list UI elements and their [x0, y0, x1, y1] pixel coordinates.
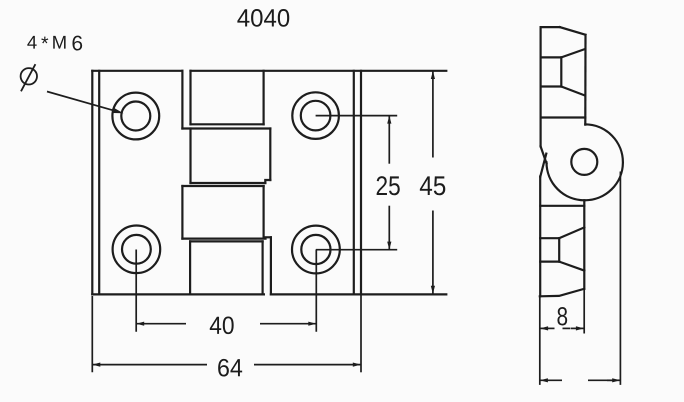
side view: bottom leaf left edge slant [540, 154, 546, 177]
leader line to top-left hole [47, 92, 124, 114]
front view: bottom edge left segment [92, 293, 264, 295]
dimension 25 text [377, 176, 400, 195]
side view: pin hole [571, 149, 597, 175]
side view: top leaf top edge [541, 26, 560, 28]
dimension 45 text [420, 176, 445, 195]
side view: top countersink cylinder bottom [541, 85, 562, 87]
dimension 40 line right shaft [260, 323, 316, 325]
hole top-right outer [292, 92, 339, 139]
hole top-right inner [301, 101, 331, 131]
side view: top countersink cone top [561, 49, 585, 57]
dimension 64 text [218, 359, 242, 377]
middle knuckle right edge upper [269, 129, 271, 181]
side view: barrel outer arc right [585, 124, 623, 200]
front view: left plate inner line [98, 71, 100, 295]
title 4040 [237, 9, 289, 27]
dimension 8 left shaft [540, 327, 554, 329]
dimension 45 top arrow [431, 71, 435, 79]
dimension 40 right arrow [308, 322, 316, 326]
dimension 64 line left shaft [92, 364, 207, 366]
dimension 45 bottom arrow [431, 286, 435, 294]
bottom overall dimension left shaft [540, 379, 562, 381]
top knuckle left edge [189, 71, 191, 125]
knuckle gap edge top [181, 71, 183, 129]
dimension 25 line lower shaft [388, 206, 390, 250]
side view: bottom countersink cylinder top [540, 237, 559, 239]
dimension 45 line upper shaft [432, 71, 434, 158]
extension line from top-right hole center [316, 115, 398, 117]
front view: right plate inner line [353, 71, 355, 295]
dimension 40 line left shaft [136, 323, 186, 325]
side view: barrel outer arc bottom-left [547, 162, 585, 200]
bottom overall dimension dash [588, 379, 615, 381]
hole bottom-right inner [301, 235, 330, 264]
side view: top countersink cylinder top [541, 56, 562, 58]
hole top-left inner [121, 102, 150, 131]
side view: bottom leaf right edge [583, 200, 585, 288]
side view: bottom leaf end line [540, 289, 584, 297]
side view: bottom leaf top edge [540, 205, 584, 207]
dimension 64 left arrow [92, 363, 100, 367]
middle knuckle bottom edge [191, 182, 266, 184]
front view: top edge right segment with 45 extension [191, 70, 447, 72]
hole bottom-left outer [113, 226, 161, 274]
hole bottom-left inner [122, 235, 151, 264]
extension line 64 right [360, 294, 362, 372]
side view: bottom countersink cone bottom slant [559, 262, 584, 271]
dimension 25 bottom arrow [387, 242, 391, 250]
bottom overall dimension left arrow [540, 378, 548, 382]
front view: left plate outer edge [91, 71, 93, 295]
side view: top countersink cylinder vertical [560, 57, 562, 86]
top knuckle right edge [263, 71, 265, 125]
dimension 40 left arrow [136, 322, 144, 326]
dimension 64 right arrow [353, 363, 361, 367]
side view: top leaf right edge [584, 35, 586, 125]
top knuckle bottom edge [191, 123, 264, 125]
side view: top leaf junction line [541, 116, 586, 118]
third knuckle bottom edge [182, 238, 265, 240]
dimension 40 text [210, 316, 234, 334]
bottom overall dimension right shaft [607, 379, 620, 381]
dimension 8 dash [563, 327, 571, 329]
dimension 8 left arrow [540, 326, 548, 330]
side view: bottom countersink cylinder bottom [540, 261, 559, 263]
side view: 8-dim right extension [583, 289, 585, 334]
third knuckle right step [264, 236, 271, 238]
third knuckle left gap edge [181, 186, 183, 239]
dimension 64 line right shaft [254, 364, 361, 366]
dimension 45 line lower shaft [432, 211, 434, 294]
hole bottom-right outer [292, 226, 340, 274]
third knuckle top edge [182, 185, 263, 187]
bottom knuckle top edge [190, 240, 263, 242]
dimension 25 top arrow [387, 116, 391, 124]
side view: bottom leaf left edge [539, 177, 541, 297]
bottom knuckle right edge [262, 241, 264, 294]
front view: top edge left segment [92, 70, 182, 72]
middle knuckle top edge [182, 127, 270, 129]
side view: bottom countersink cone top slant [559, 227, 584, 238]
front view: bottom edge right segment with 45 extension [271, 293, 446, 295]
third knuckle right edge [263, 186, 265, 237]
side view: bottom countersink cylinder vertical [558, 238, 560, 261]
extension line from bottom-right hole center rightwards [316, 249, 397, 251]
diameter symbol [21, 64, 37, 91]
label 4*M6 [27, 36, 82, 51]
side view: top countersink cone bottom [561, 87, 585, 96]
side view: left extension line down [539, 296, 541, 385]
extension line from bottom-right hole center downwards [315, 250, 317, 332]
side view: top leaf top slant [560, 27, 586, 35]
side view: right extension from barrel [619, 172, 621, 385]
lower right gap edge [270, 237, 272, 294]
extension line from bottom-left hole center downwards [135, 250, 137, 332]
dimension 8 text [557, 307, 567, 325]
side view: top leaf to barrel slant [541, 146, 547, 163]
middle knuckle left bend line [189, 129, 191, 184]
dimension 8 right arrow [576, 326, 584, 330]
hole top-left outer [112, 93, 159, 140]
dimension 8 right shaft [571, 327, 584, 329]
extension line 64 left [91, 296, 93, 372]
middle knuckle right step [265, 180, 270, 183]
dimension 25 line upper shaft [388, 116, 390, 164]
front view: right plate outer edge [360, 71, 362, 295]
side view: top leaf left edge [539, 27, 541, 146]
bottom knuckle left edge [189, 241, 191, 294]
bottom overall dimension right arrow [612, 378, 620, 382]
